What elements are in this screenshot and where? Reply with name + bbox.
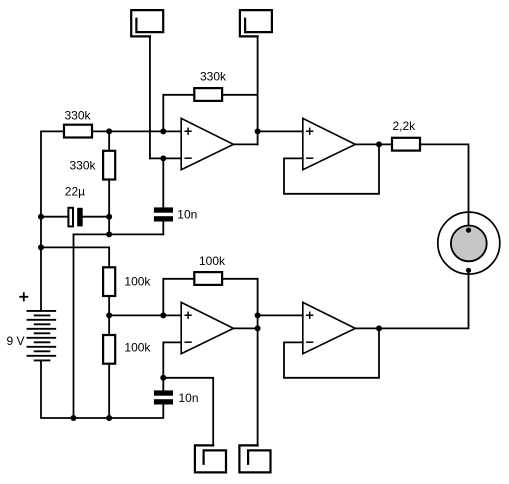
minus mark U1c [185, 341, 191, 343]
wire vertical to bottom rail [73, 234, 75, 418]
speaker LS1 [438, 212, 500, 274]
node bottom rail R5 [106, 415, 112, 421]
wire C2 top stub [162, 158, 164, 207]
wire feedback osc1 left vertical [163, 95, 193, 132]
op-amp U1b buffer1 [303, 118, 356, 169]
svg-text:10n: 10n [177, 208, 197, 222]
node bottom rail left [71, 415, 77, 421]
wire rail to R4 [41, 247, 109, 266]
capacitor C1 22u [68, 208, 82, 227]
resistor R4 100k [103, 267, 115, 296]
wire osc1 output [234, 143, 258, 145]
touch pad S4 bottom right [239, 445, 270, 472]
minus mark U1b [307, 157, 313, 159]
terminal dot speaker bottom [466, 268, 471, 273]
svg-text:330k: 330k [65, 109, 92, 123]
plus mark U1b [307, 128, 313, 134]
node buffer2 output feedback [376, 325, 382, 331]
wire node row under caps [74, 233, 164, 235]
wire R4 to noninverting line osc2 [108, 297, 110, 334]
wire feedback osc2 right [223, 279, 257, 316]
wire noninverting input line osc2 [109, 314, 181, 316]
wire R5 bottom to rail [108, 365, 110, 418]
wire pad S3 branch [163, 378, 213, 446]
node inverting osc1 [160, 155, 166, 161]
wire pad S1 down to inverting line [149, 36, 151, 158]
op-amp U1a osc1 [181, 118, 233, 169]
svg-text:9 V: 9 V [7, 334, 25, 348]
wire osc1 output to buffer1 [258, 130, 303, 132]
wire feedback osc2 left vertical [163, 279, 193, 316]
svg-text:100k: 100k [124, 341, 151, 355]
op-amp U1c osc2 [181, 302, 233, 353]
wire battery plus rail up [41, 131, 63, 311]
node inverting osc2 pad branch [160, 375, 166, 381]
wire 22u left [41, 216, 68, 218]
wire R2 top stub [108, 131, 110, 149]
node rail R4 branch [38, 244, 44, 250]
node R4-R5 junction [106, 312, 112, 318]
wire buffer1 feedback [284, 144, 379, 193]
svg-text:330k: 330k [200, 70, 227, 84]
svg-text:2,2k: 2,2k [393, 119, 417, 133]
minus mark U1d [307, 341, 313, 343]
wire buffer2 feedback [284, 328, 379, 377]
node feedback plus osc2 [160, 312, 166, 318]
plus mark U1d [307, 312, 313, 318]
battery BT1 [28, 311, 56, 361]
wire pad S2 down to output node [257, 36, 259, 144]
resistor R3 330k feedback osc1 [194, 88, 222, 101]
resistor R5 100k [103, 335, 115, 364]
wire osc2 output [234, 327, 258, 329]
resistor R6 100k feedback osc2 [194, 272, 222, 285]
minus mark U1a [185, 157, 191, 159]
wire osc2 output node vertical to pad [257, 315, 259, 445]
wire battery minus to bottom rail [41, 360, 163, 418]
op-amp U1d buffer2 [303, 302, 356, 353]
node feedback plus osc1 [160, 128, 166, 134]
wire noninverting input line osc1 [93, 130, 181, 132]
wire C2 bottom stub [162, 222, 164, 235]
node osc2 output branch [255, 312, 261, 318]
resistor R1 330k [64, 125, 92, 138]
terminal dot speaker top [466, 228, 471, 233]
wire buffer2 output to speaker bottom [355, 270, 468, 328]
svg-text:330k: 330k [70, 159, 97, 173]
plus mark U1c [185, 312, 191, 318]
wire feedback osc1 right [223, 94, 257, 96]
svg-text:22µ: 22µ [65, 185, 85, 199]
node osc2 output tee [255, 325, 261, 331]
node buffer1 output feedback [376, 141, 382, 147]
node rail 22u left [38, 214, 44, 220]
wire R7 to speaker top [421, 144, 468, 230]
svg-text:100k: 100k [199, 254, 226, 268]
resistor R2 330k [103, 151, 115, 180]
node osc1 output branch [255, 128, 261, 134]
node cap row [106, 231, 112, 237]
wire osc2 to buffer2 [258, 314, 303, 316]
wire inverting input line osc1 [150, 157, 181, 159]
svg-text:100k: 100k [124, 275, 151, 289]
svg-text:10n: 10n [179, 391, 199, 405]
resistor R7 2,2k [392, 138, 420, 151]
capacitor C2 10n [154, 207, 173, 221]
plus mark U1a [185, 128, 191, 134]
touch pad S3 bottom left [195, 445, 226, 472]
battery plus label [20, 293, 27, 300]
node R1-R2 junction [106, 128, 112, 134]
wire buffer1 output [355, 143, 391, 145]
touch pad S1 top left [131, 10, 163, 36]
capacitor C3 10n [154, 390, 173, 404]
wire R2 bottom to node [108, 181, 110, 235]
touch pad S2 top right [240, 10, 272, 36]
node 22u right [106, 214, 112, 220]
wire 22u right [82, 216, 109, 218]
wire inverting input line osc2 [163, 342, 181, 390]
